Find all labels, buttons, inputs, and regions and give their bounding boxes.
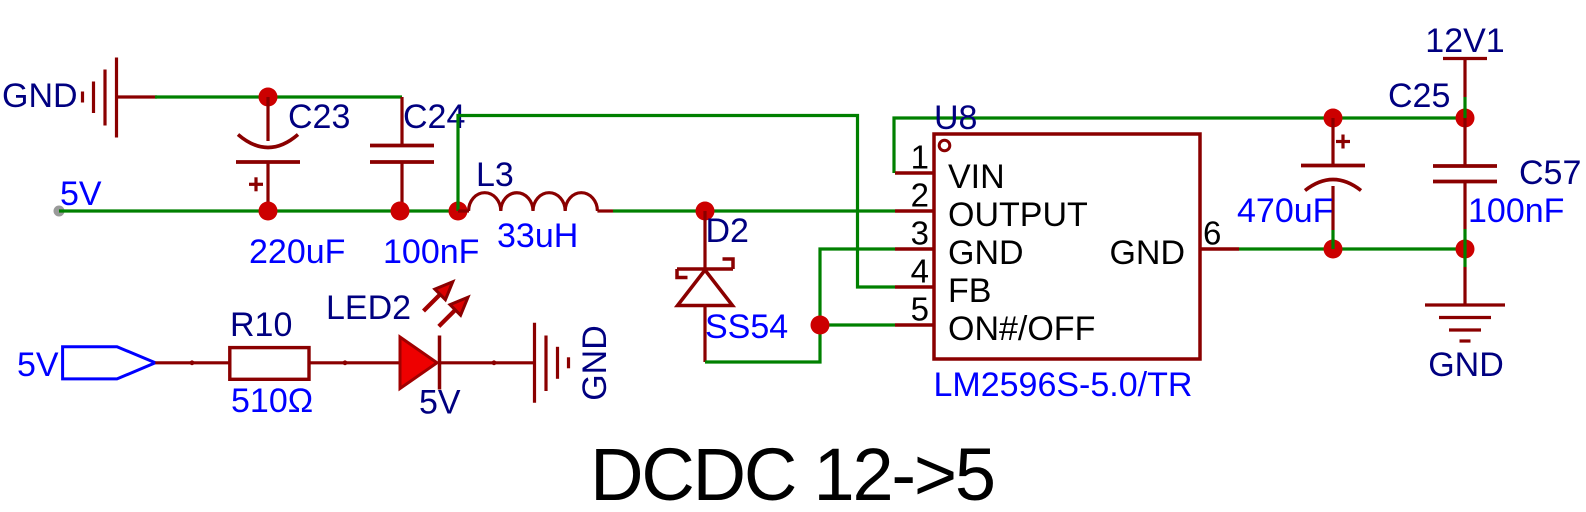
- capacitor C57: [1433, 118, 1497, 229]
- svg-text:L3: L3: [476, 156, 514, 194]
- svg-text:LED2: LED2: [326, 289, 411, 327]
- junction FB tap: [449, 202, 468, 221]
- net anchor dot: [54, 206, 65, 217]
- svg-text:2: 2: [911, 177, 929, 214]
- ground symbol GND1 top-left: [83, 58, 158, 138]
- junction C24 bottom: [391, 202, 410, 221]
- svg-text:5: 5: [911, 291, 929, 328]
- wire rail to GND2: [1463, 249, 1466, 267]
- port 5V (bottom-left): [63, 347, 156, 379]
- svg-text:C57: C57: [1519, 154, 1581, 192]
- svg-text:GND: GND: [576, 325, 614, 401]
- ground symbol GND3 mid-left: [535, 323, 569, 403]
- svg-text:ON#/OFF: ON#/OFF: [948, 310, 1095, 348]
- wire 5V rail: [59, 209, 462, 212]
- svg-text:GND: GND: [1109, 234, 1185, 272]
- svg-text:220uF: 220uF: [249, 233, 345, 271]
- junction C57 bottom: [1456, 240, 1475, 259]
- svg-text:33uH: 33uH: [497, 217, 578, 255]
- wire gnd rail top: [155, 95, 402, 98]
- svg-text:510Ω: 510Ω: [231, 382, 313, 420]
- pin 1 stub: [895, 171, 934, 174]
- junction C25 top: [1324, 109, 1343, 128]
- junction at D2 cathode: [696, 202, 715, 221]
- wire 12V1 to rail: [1463, 97, 1466, 118]
- svg-text:3: 3: [911, 215, 929, 252]
- svg-text:LM2596S-5.0/TR: LM2596S-5.0/TR: [934, 366, 1193, 404]
- wire port to R10: [155, 361, 230, 364]
- pin 3 stub: [895, 247, 934, 250]
- IC U8 LM2596S body: [895, 134, 1239, 359]
- svg-text:100nF: 100nF: [383, 233, 479, 271]
- LED LED2: [400, 282, 468, 390]
- svg-text:D2: D2: [706, 212, 749, 250]
- pin dot: [492, 360, 497, 365]
- wire ON#/OFF pin5: [820, 323, 895, 326]
- pin 2 stub: [895, 209, 934, 212]
- wire C57 to output rail: [1463, 229, 1466, 249]
- svg-text:GND: GND: [2, 77, 78, 115]
- svg-text:5V: 5V: [419, 384, 461, 422]
- power flag 12V1: [1443, 59, 1487, 98]
- junction at C23 top: [259, 88, 278, 107]
- pin 5 stub: [895, 323, 934, 326]
- wire LED to GND: [440, 361, 535, 364]
- wire D2 anode to GND pin3: [705, 249, 895, 362]
- svg-text:470uF: 470uF: [1237, 192, 1333, 230]
- LED arrow 2: [439, 309, 456, 326]
- wire C25 to output rail: [1331, 230, 1334, 249]
- svg-text:12V1: 12V1: [1425, 22, 1504, 60]
- junction C57 top: [1456, 109, 1475, 128]
- capacitor C25: [1301, 118, 1365, 230]
- svg-text:VIN: VIN: [948, 158, 1005, 196]
- svg-text:U8: U8: [934, 99, 977, 137]
- pin 4 stub: [895, 285, 934, 288]
- svg-text:5V: 5V: [17, 346, 59, 384]
- svg-text:5V: 5V: [60, 175, 102, 213]
- pin dot: [343, 360, 348, 365]
- junction C23 bottom: [259, 202, 278, 221]
- junction pin5 tap: [811, 316, 830, 335]
- LED arrow 1: [424, 294, 442, 312]
- wire R10 to LED: [309, 361, 400, 364]
- svg-text:FB: FB: [948, 272, 991, 310]
- svg-text:C23: C23: [288, 98, 350, 136]
- svg-text:GND: GND: [1428, 346, 1504, 384]
- svg-text:C25: C25: [1388, 77, 1450, 115]
- wire VIN to 12V rail: [894, 118, 1465, 173]
- svg-text:C24: C24: [403, 98, 465, 136]
- pin dot: [190, 360, 195, 365]
- svg-text:SS54: SS54: [705, 308, 788, 346]
- resistor R10: [230, 348, 309, 380]
- svg-text:4: 4: [911, 253, 929, 290]
- svg-text:R10: R10: [230, 306, 292, 344]
- capacitor C24: [370, 97, 434, 211]
- junction C25 bottom: [1324, 240, 1343, 259]
- svg-text:6: 6: [1203, 215, 1221, 252]
- wire L3 to OUTPUT pin: [613, 209, 895, 212]
- pin 6 stub: [1200, 247, 1239, 250]
- wire output rail: [1239, 247, 1465, 250]
- svg-text:100nF: 100nF: [1468, 192, 1564, 230]
- diode D2 (schottky): [677, 211, 733, 362]
- svg-text:1: 1: [911, 139, 929, 176]
- svg-text:DCDC 12->5: DCDC 12->5: [590, 433, 994, 512]
- capacitor C23: [236, 97, 300, 211]
- svg-text:OUTPUT: OUTPUT: [948, 196, 1088, 234]
- wire FB feedback loop: [458, 116, 895, 288]
- svg-text:GND: GND: [948, 234, 1024, 272]
- inductor L3: [458, 193, 613, 211]
